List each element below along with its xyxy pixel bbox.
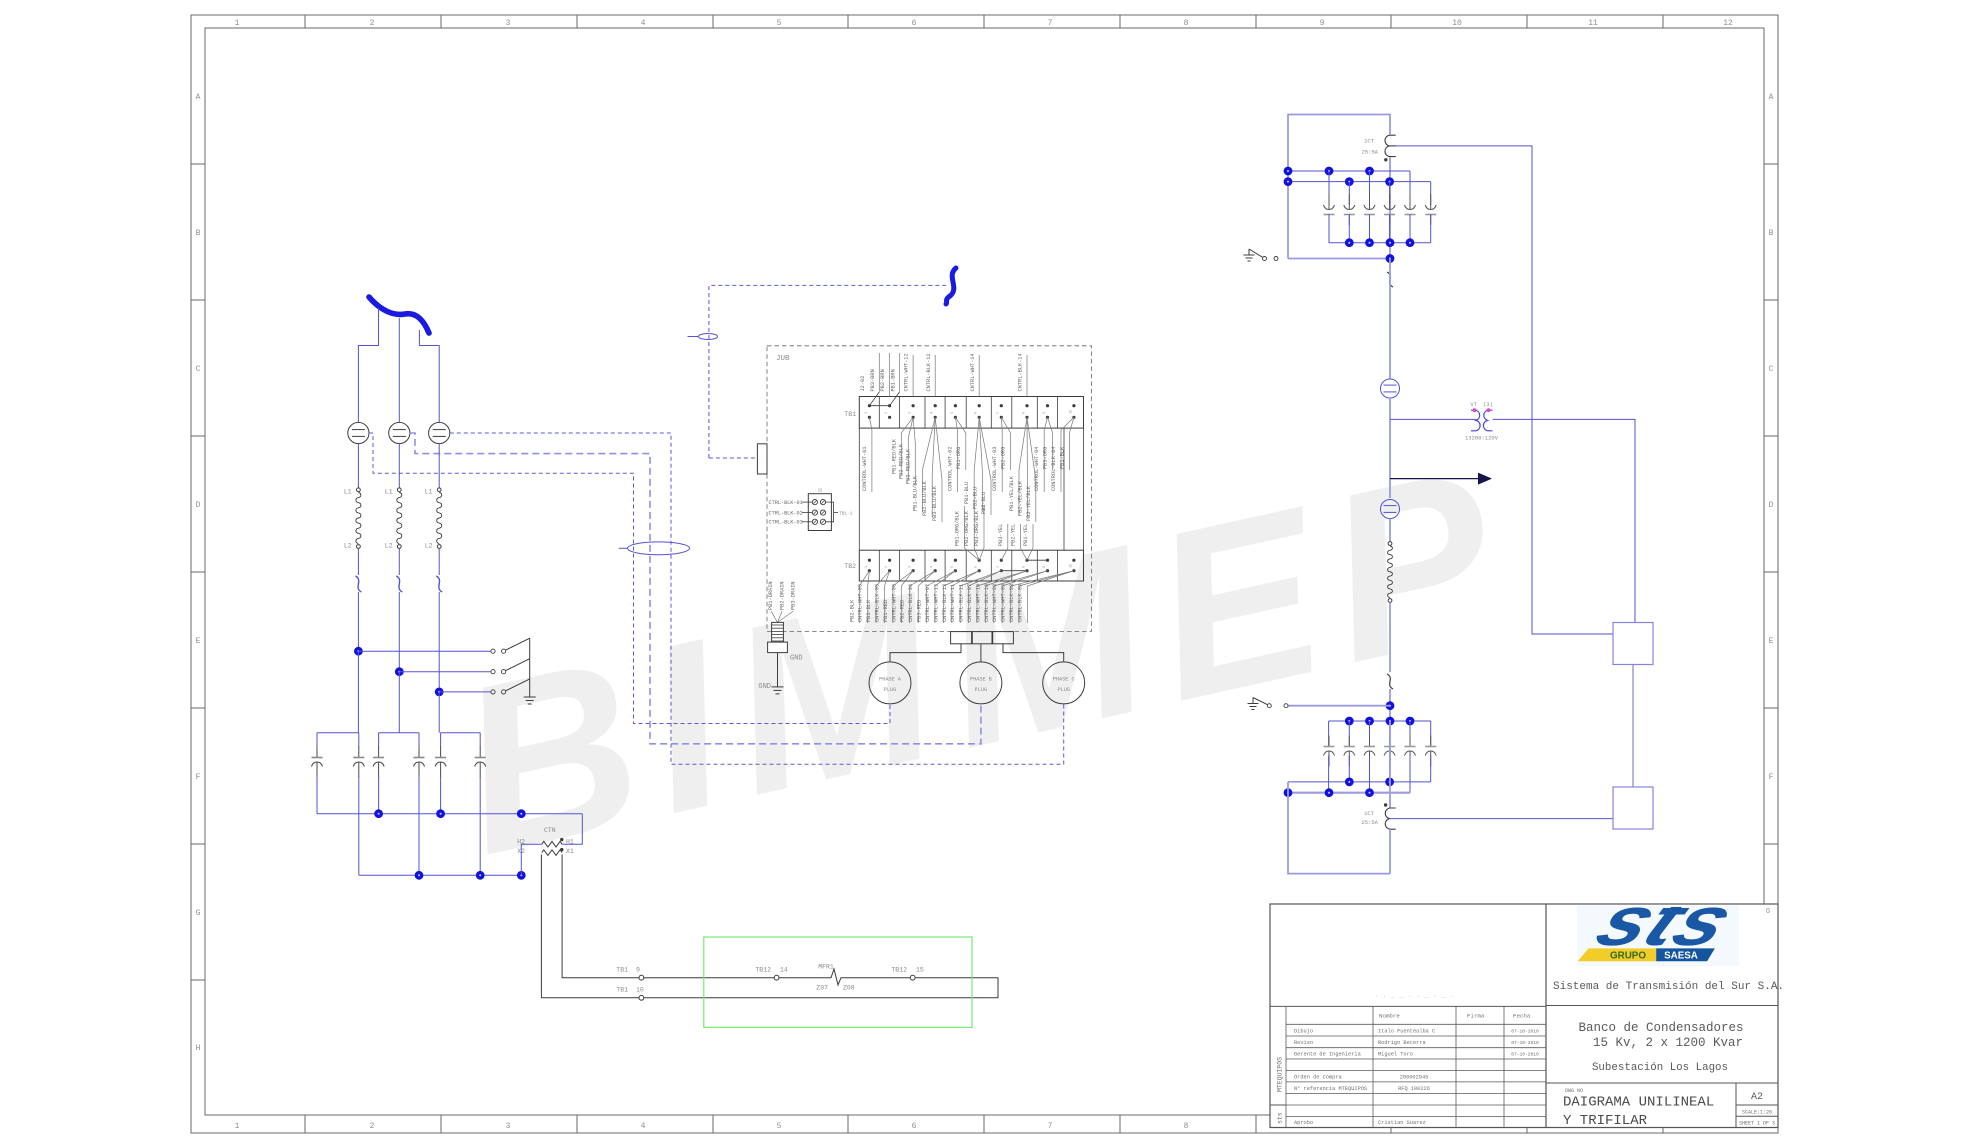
svg-text:CNTRL-WHT-14: CNTRL-WHT-14	[970, 353, 976, 391]
wire label PB2-ORG	[1001, 417, 1010, 433]
voltage transformer VT (3)	[1471, 410, 1480, 431]
CTN X2 lead down	[541, 855, 639, 998]
TB2 terminal 6	[978, 559, 981, 562]
capacitor bank bus segment 2	[379, 732, 419, 734]
TB2 terminal 4	[934, 559, 937, 562]
capacitor unit C2	[358, 733, 360, 748]
svg-text:14: 14	[780, 967, 788, 974]
svg-text:7: 7	[997, 566, 1001, 568]
wire phase C to cap bus	[438, 692, 440, 733]
svg-text:H2: H2	[517, 838, 525, 845]
svg-text:13200:120V: 13200:120V	[1465, 435, 1499, 442]
main bus upper	[1389, 158, 1391, 259]
wire label PB3-RED/BLK	[913, 417, 915, 443]
svg-text:1: 1	[235, 19, 240, 28]
svg-text:Firma: Firma	[1467, 1013, 1485, 1020]
svg-text:D: D	[196, 501, 201, 510]
svg-text:PB1-BLU/BLK: PB1-BLU/BLK	[912, 475, 918, 511]
svg-text:4: 4	[641, 1122, 646, 1131]
svg-text:SAESA: SAESA	[1664, 951, 1698, 962]
svg-text:PB2-DRAIN: PB2-DRAIN	[779, 581, 785, 610]
upper bank capacitor 6	[1430, 182, 1432, 205]
svg-text:CTRL-BLK-01: CTRL-BLK-01	[769, 500, 803, 506]
svg-text:CONTROL-WHT-01: CONTROL-WHT-01	[862, 446, 868, 491]
svg-text:GND: GND	[758, 683, 771, 691]
TB1 terminal 10	[1072, 404, 1075, 407]
svg-text:DAIGRAMA UNILINEAL: DAIGRAMA UNILINEAL	[1563, 1095, 1714, 1111]
svg-text:4: 4	[641, 19, 646, 28]
lower bank capacitor 5	[1409, 721, 1411, 747]
surge arrester lower (single-line)	[1381, 500, 1400, 519]
svg-text:CONTROL-WHT-04: CONTROL-WHT-04	[1034, 446, 1040, 491]
wire label PB3-BLU/BLK	[935, 417, 942, 480]
upper cap bank bus 2	[1288, 181, 1431, 183]
svg-text:PB3-RED/BLK: PB3-RED/BLK	[905, 448, 911, 484]
svg-text:3: 3	[506, 19, 511, 28]
wire break phase C	[436, 576, 442, 592]
svg-text:PB1-DRAIN: PB1-DRAIN	[768, 581, 774, 610]
svg-text:J2: J2	[817, 488, 823, 494]
wire label CNTRL-WHT-08	[1002, 571, 1047, 586]
svg-text:MTEQUIPOS: MTEQUIPOS	[1277, 1057, 1284, 1092]
green highlight box	[704, 937, 972, 1027]
bus below reactor	[1389, 602, 1391, 672]
svg-text:6: 6	[912, 19, 917, 28]
svg-text:PB2-ORG/BLK: PB2-ORG/BLK	[964, 510, 970, 546]
TB2 terminal 3	[912, 559, 915, 562]
svg-text:10: 10	[1069, 410, 1073, 414]
upper bank capacitor 2	[1348, 182, 1350, 205]
svg-text:PB3-ORG: PB3-ORG	[1043, 447, 1049, 469]
wire break lower bus	[1387, 674, 1393, 689]
svg-text:L2: L2	[385, 543, 393, 550]
svg-text:1: 1	[865, 566, 869, 568]
spare cable dashed to JUB tab	[709, 457, 757, 459]
svg-text:TB1: TB1	[616, 987, 628, 994]
wire label CONTROL-WHT-04	[1044, 417, 1047, 430]
wire label PB3-RED	[927, 571, 956, 586]
wire phase B drop	[398, 318, 400, 423]
reactor L1/L2 phase A	[357, 488, 361, 492]
ground wire	[777, 653, 779, 687]
wire label PB1-BLU/BLK	[922, 417, 935, 470]
TB1 terminal 9	[1046, 404, 1049, 407]
wire phase C below reactor	[438, 548, 440, 575]
svg-text:5: 5	[951, 412, 955, 414]
wire phase B to reactor	[398, 444, 400, 488]
switch pole row 2	[395, 667, 404, 676]
relay box 1	[1613, 623, 1653, 665]
svg-text:PHASE B: PHASE B	[970, 677, 992, 683]
svg-text:PB2-RED/BLK: PB2-RED/BLK	[898, 443, 904, 479]
svg-text:CNTRL-BLK-05: CNTRL-BLK-05	[875, 584, 881, 622]
wire label PB1-YEL	[1027, 548, 1033, 560]
svg-text:TB2: TB2	[844, 563, 856, 570]
svg-text:CNTRL-BLK-09: CNTRL-BLK-09	[1017, 584, 1023, 622]
svg-text:CTRL-BLK-03: CTRL-BLK-03	[769, 520, 803, 526]
CTN X1 lead down	[562, 855, 639, 978]
spare control cable (dashed) with squiggle end	[709, 285, 946, 458]
switch linkage bar	[529, 638, 531, 697]
svg-text:PB3-BRN: PB3-BRN	[870, 369, 876, 391]
upper bank capacitor 1	[1328, 171, 1330, 205]
wire phase A to cap bus	[357, 651, 359, 733]
svg-text:PHASE A: PHASE A	[879, 677, 902, 683]
switch pole row 3	[435, 688, 444, 697]
svg-text:L1: L1	[344, 489, 352, 496]
terminal TB12 14	[774, 975, 779, 980]
wire label PB2-BLU	[979, 417, 982, 475]
control cable C (dashed) to Phase A plug	[369, 433, 890, 724]
svg-text:PHASE C: PHASE C	[1053, 677, 1075, 683]
svg-text:G: G	[1766, 908, 1770, 916]
svg-text:1CT: 1CT	[1364, 810, 1375, 817]
svg-text:CNTRL-BLK-06: CNTRL-BLK-06	[908, 584, 914, 622]
lower bank neutral bus 1	[1288, 781, 1431, 783]
wire label CNTRL-BLK-05	[885, 571, 890, 586]
svg-text:1: 1	[865, 412, 869, 414]
svg-text:N° referencia MTEQUIPOS: N° referencia MTEQUIPOS	[1294, 1086, 1367, 1092]
reactor L1/L2 phase B	[397, 488, 401, 492]
svg-text:PLUG: PLUG	[1057, 687, 1069, 693]
surge arrester B1	[389, 422, 410, 443]
wire label PB3-YEL/BLK	[1027, 417, 1036, 480]
TB1 terminal 7	[1000, 404, 1003, 407]
svg-text:25:5A: 25:5A	[1361, 819, 1378, 826]
plug cable clamps	[951, 632, 972, 644]
neutral bottom bus	[359, 874, 522, 876]
svg-text:TB12: TB12	[891, 967, 907, 974]
J2 TB1-1 bracket	[826, 502, 834, 522]
svg-text:PB3-BLK: PB3-BLK	[866, 599, 872, 622]
svg-text:L1: L1	[385, 489, 393, 496]
surge arrester A1	[348, 422, 369, 443]
wire break phase B	[396, 576, 402, 592]
svg-text:8: 8	[1023, 412, 1027, 414]
svg-text:15: 15	[916, 967, 924, 974]
wire label CONTROL-WHT-01	[869, 417, 872, 430]
wire label CNTRL-BLK-07	[977, 571, 1027, 586]
TB1 incoming wire labels	[878, 353, 880, 392]
wire label PB1-YEL/BLK	[1019, 417, 1027, 470]
svg-text:Miguel Toro: Miguel Toro	[1378, 1052, 1413, 1058]
svg-text:PB3-YEL/BLK: PB3-YEL/BLK	[1026, 485, 1032, 521]
svg-text:H: H	[196, 1044, 201, 1053]
TB2 terminal 8	[1025, 559, 1028, 562]
sheet size A2	[1735, 1083, 1737, 1128]
TB2 terminal 9	[1046, 559, 1049, 562]
svg-text:07-10-2010: 07-10-2010	[1511, 1040, 1539, 1046]
wire label CNTRL-BLK-13	[952, 571, 979, 586]
svg-text:3: 3	[909, 566, 913, 568]
PHASE A PLUG	[869, 662, 911, 704]
svg-text:8: 8	[1023, 566, 1027, 568]
svg-text:5: 5	[951, 566, 955, 568]
lower bank capacitor 4	[1389, 721, 1391, 747]
title block	[1270, 904, 1778, 1128]
VT wire to relay box	[1493, 419, 1636, 622]
VT tap wire	[1390, 418, 1477, 420]
svg-text:6: 6	[912, 1122, 917, 1131]
svg-text:F: F	[196, 773, 201, 782]
TB1 terminal 1	[868, 404, 871, 407]
svg-text:PB3-ORG/BLK: PB3-ORG/BLK	[974, 510, 980, 546]
svg-text:PB3-YEL: PB3-YEL	[998, 524, 1004, 546]
terminal TB1 10	[639, 995, 644, 1000]
svg-text:TB1: TB1	[844, 411, 856, 418]
TB1 terminal 2	[888, 404, 891, 407]
capacitor bank bus segment 1	[317, 732, 359, 734]
svg-text:CNTRL-BLK-10: CNTRL-BLK-10	[984, 584, 990, 622]
svg-text:CTN: CTN	[544, 827, 556, 834]
svg-text:B: B	[1769, 229, 1774, 238]
terminal strip side rails	[858, 428, 860, 550]
capacitor unit C6	[479, 733, 481, 748]
PHASE B PLUG	[960, 662, 1002, 704]
svg-text:9: 9	[1043, 566, 1047, 568]
wire label CNTRL-BLK-10	[994, 571, 1048, 586]
svg-text:CNTRL-WHT-11: CNTRL-WHT-11	[950, 584, 956, 622]
cable group ellipse marker	[628, 542, 690, 555]
svg-text:sts: sts	[1277, 1112, 1284, 1124]
svg-text:PB2-BLU: PB2-BLU	[973, 487, 979, 509]
svg-text:D: D	[1769, 501, 1774, 510]
lower bank capacitor 6	[1430, 721, 1432, 747]
svg-text:Gerente de Ingenieria: Gerente de Ingenieria	[1294, 1052, 1361, 1058]
svg-text:A: A	[196, 93, 201, 102]
svg-text:L2: L2	[344, 543, 352, 550]
surge arrester top (single-line)	[1381, 379, 1400, 398]
svg-text:B: B	[196, 229, 201, 238]
svg-text:Z07: Z07	[816, 985, 828, 992]
terminal TB12 15	[910, 975, 915, 980]
svg-text:CONTROL-BLK-04: CONTROL-BLK-04	[1051, 446, 1057, 491]
lower bank capacitor 1	[1328, 721, 1330, 747]
svg-text:MFR1: MFR1	[818, 964, 834, 971]
wire label CONTROL-WHT-03	[1000, 417, 1003, 430]
svg-text:Orden de Compra: Orden de Compra	[1294, 1074, 1342, 1080]
svg-text:VT: VT	[1470, 401, 1477, 408]
svg-text:10: 10	[636, 987, 644, 994]
wire break upper bus	[1387, 272, 1393, 287]
TB2 terminal 10	[1072, 559, 1075, 562]
wire label CNTRL-BLK-06	[918, 571, 935, 586]
svg-text:CNTRL-BLK-13: CNTRL-BLK-13	[942, 584, 948, 622]
svg-text:CNTRL-WHT-12: CNTRL-WHT-12	[904, 353, 910, 391]
wire between relay boxes	[1632, 665, 1634, 788]
svg-text:7: 7	[1048, 19, 1053, 28]
svg-text:CNTRL-BLK-12: CNTRL-BLK-12	[926, 353, 932, 391]
terminal strip TB2	[859, 550, 1083, 581]
capacitor unit C3	[378, 733, 380, 748]
svg-text:CNTRL-WHT-06: CNTRL-WHT-06	[891, 584, 897, 622]
wire label PB2-BLU/BLK	[932, 417, 935, 475]
wire phase A below reactor	[357, 548, 359, 575]
wire phase A to reactor	[357, 444, 359, 488]
svg-text:Rodrigo Becerra: Rodrigo Becerra	[1378, 1040, 1426, 1046]
wire label PB2-YEL	[1020, 548, 1027, 560]
svg-text:PB2-BRN: PB2-BRN	[880, 369, 886, 391]
svg-text:. . _ _ . . _ . _ .: . . _ _ . . _ . _ .	[1374, 992, 1454, 1000]
svg-text:DWG NO: DWG NO	[1565, 1088, 1583, 1094]
svg-text:E: E	[1769, 637, 1774, 646]
svg-text:25:5A: 25:5A	[1361, 149, 1378, 156]
switch pole row 1	[354, 647, 363, 656]
wire label CNTRL-WHT-06	[901, 571, 913, 586]
power flow arrow	[1390, 478, 1478, 480]
capacitor unit C4	[418, 733, 420, 748]
metering wire right loop	[644, 978, 998, 998]
wire label PB3-BLK	[876, 571, 890, 586]
metering wire TB1-9	[639, 975, 644, 980]
svg-text:(3): (3)	[1483, 401, 1493, 408]
wire label CNTRL-WHT-05	[868, 571, 870, 586]
PHASE C PLUG	[1043, 662, 1085, 704]
wire label PB1-ORG	[955, 417, 965, 433]
svg-text:CNTRL-WHT-13: CNTRL-WHT-13	[933, 584, 939, 622]
CTN H2 connection	[521, 844, 542, 875]
TB2 terminal 5	[954, 559, 957, 562]
svg-text:9: 9	[636, 967, 640, 974]
svg-text:A: A	[1769, 93, 1774, 102]
svg-text:11: 11	[1588, 19, 1598, 28]
svg-text:3: 3	[506, 1122, 511, 1131]
1CT secondary tap wire	[1396, 146, 1613, 634]
svg-text:PB2-BLK: PB2-BLK	[849, 599, 855, 622]
wire label PB1-BLU	[974, 417, 979, 470]
wire label CNTRL-BLK-09	[1027, 571, 1074, 586]
svg-text:PB3-DRAIN: PB3-DRAIN	[791, 581, 797, 610]
upper bank capacitor 4	[1389, 182, 1391, 205]
svg-text:7: 7	[997, 412, 1001, 414]
svg-text:X2: X2	[517, 848, 525, 855]
svg-text:2: 2	[370, 1122, 375, 1131]
svg-text:PB2-YEL/BLK: PB2-YEL/BLK	[1017, 480, 1023, 516]
wire label PB1-RED	[893, 571, 913, 586]
svg-text:J2-02: J2-02	[860, 376, 866, 392]
svg-text:PB1-YEL/BLK: PB1-YEL/BLK	[1009, 475, 1015, 511]
lower cap bank top bus	[1329, 720, 1431, 722]
svg-text:PB1-BLK: PB1-BLK	[1059, 446, 1065, 469]
svg-text:G: G	[196, 909, 201, 918]
TB2 terminal 7	[1000, 559, 1003, 562]
svg-text:C: C	[196, 365, 201, 374]
svg-text:1CT: 1CT	[1364, 138, 1375, 145]
upper bank capacitor 5	[1409, 171, 1411, 205]
capacitor unit C5	[440, 733, 442, 748]
svg-text:Nombre: Nombre	[1379, 1013, 1400, 1020]
ground symbol of switch	[524, 696, 536, 698]
surge arrester C1	[429, 422, 450, 443]
TB2 terminal 2	[888, 559, 891, 562]
neutral mid bus	[317, 813, 582, 815]
svg-text:Z08: Z08	[843, 985, 855, 992]
wire label CNTRL-WHT-10	[985, 571, 1027, 586]
svg-text:SCALE:1:20: SCALE:1:20	[1742, 1110, 1772, 1116]
wire label PB2-RED	[910, 571, 936, 586]
svg-text:Y TRIFILAR: Y TRIFILAR	[1563, 1113, 1648, 1129]
TB1 terminal 8	[1025, 404, 1028, 407]
svg-text:C: C	[1769, 365, 1774, 374]
svg-text:07-10-2010: 07-10-2010	[1511, 1028, 1539, 1034]
svg-text:CNTRL-BLK-08: CNTRL-BLK-08	[1009, 584, 1015, 622]
cable gland	[772, 622, 784, 642]
current transformer 1CT bottom	[1385, 808, 1395, 829]
svg-text:H1: H1	[566, 838, 574, 845]
wire label PB3-ORG/BLK	[979, 548, 984, 560]
wire label PB2-BLK	[859, 571, 869, 586]
svg-text:9: 9	[1320, 19, 1325, 28]
mid bus to CTN H1	[562, 814, 582, 845]
svg-text:CONTROL-WHT-03: CONTROL-WHT-03	[992, 446, 998, 491]
svg-text:JUB: JUB	[776, 355, 790, 363]
main bus segment	[1389, 398, 1391, 498]
upper cap bank bus 1	[1288, 170, 1410, 172]
svg-text:CTRL-BLK-02: CTRL-BLK-02	[769, 510, 803, 516]
svg-text:PB1-ORG/BLK: PB1-ORG/BLK	[954, 510, 960, 546]
svg-text:Subestación Los Lagos: Subestación Los Lagos	[1592, 1062, 1728, 1074]
svg-text:Cristian Suarez: Cristian Suarez	[1378, 1120, 1426, 1126]
wire phase B to cap bus	[398, 672, 400, 733]
wire phase C drop	[419, 330, 439, 423]
svg-text:L2: L2	[425, 543, 433, 550]
svg-text:8: 8	[1184, 1122, 1189, 1131]
lower bank neutral bus 2	[1288, 792, 1410, 794]
svg-text:PB2-ORG: PB2-ORG	[1001, 447, 1007, 469]
company logo sts GRUPO SAESA	[1577, 882, 1748, 966]
svg-text:PB2-YEL: PB2-YEL	[1010, 524, 1016, 546]
svg-text:TB1: TB1	[616, 967, 628, 974]
lower bank capacitor 3	[1369, 721, 1371, 747]
resistor MFR1 (Z07/Z08)	[827, 969, 845, 985]
neutral CT transformer CTN	[542, 841, 562, 847]
svg-text:CNTRL-WHT-09: CNTRL-WHT-09	[1001, 584, 1007, 622]
svg-text:PB2-RED: PB2-RED	[900, 600, 906, 622]
svg-text:PB3-RED: PB3-RED	[917, 600, 923, 622]
svg-text:Sistema de Transmisión del Sur: Sistema de Transmisión del Sur S.A.	[1553, 981, 1784, 993]
wire label CNTRL-BLK-11	[969, 571, 1002, 586]
svg-text:15 Kv, 2 x 1200 Kvar: 15 Kv, 2 x 1200 Kvar	[1593, 1036, 1743, 1050]
svg-text:CNTRL-WHT-08: CNTRL-WHT-08	[992, 584, 998, 622]
svg-text:2: 2	[885, 412, 889, 414]
capacitor unit C1	[316, 733, 318, 748]
upper bank switch wire	[1288, 258, 1390, 260]
svg-text:200002945: 200002945	[1400, 1074, 1429, 1080]
JUB left connector tab	[757, 444, 767, 474]
connector J2	[808, 494, 831, 531]
svg-text:2: 2	[370, 19, 375, 28]
wire label PB2-RED/BLK	[908, 417, 913, 438]
svg-text:CNTRL-WHT-05: CNTRL-WHT-05	[858, 584, 864, 622]
TB2 terminal 1	[868, 559, 871, 562]
svg-text:CNTRL-WHT-10: CNTRL-WHT-10	[975, 584, 981, 622]
lead to Phase C plug	[1003, 644, 1064, 662]
incoming cable squiggle	[369, 297, 429, 333]
title block table	[1270, 1005, 1546, 1007]
control cable B (light dashed) to Phase B plug	[410, 433, 981, 744]
svg-text:Italo Fuentealba C: Italo Fuentealba C	[1378, 1028, 1435, 1034]
wire label CONTROL-BLK-04	[1061, 417, 1074, 430]
series reactor	[1388, 542, 1392, 546]
svg-text:F: F	[1769, 773, 1774, 782]
wire label PB2-ORG/BLK	[974, 548, 979, 560]
svg-text:PLUG: PLUG	[884, 687, 896, 693]
svg-text:CNTRL-BLK-07: CNTRL-BLK-07	[967, 584, 973, 622]
svg-text:PB1-YEL: PB1-YEL	[1023, 524, 1029, 546]
svg-text:TB1-1: TB1-1	[839, 511, 853, 517]
svg-text:Fecha: Fecha	[1513, 1013, 1531, 1020]
1CT bottom tap wire	[1390, 818, 1613, 820]
